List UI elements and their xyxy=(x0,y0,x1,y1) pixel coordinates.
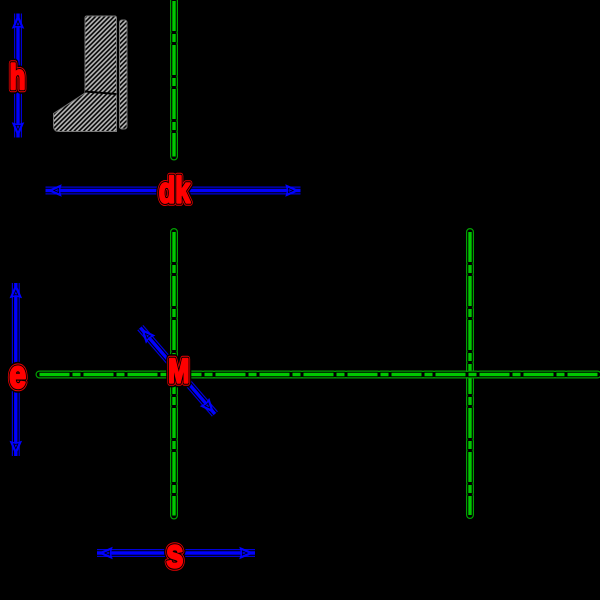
arrowhead dk left xyxy=(49,186,61,196)
dimension line dk shaft xyxy=(46,187,301,195)
center line vertical left cross (top view axis) xyxy=(170,232,178,516)
arrowhead s right xyxy=(241,548,253,558)
svg-text:s: s xyxy=(166,531,183,576)
arrowhead e top xyxy=(11,286,21,298)
svg-text:e: e xyxy=(9,353,26,396)
arrowhead h bottom xyxy=(13,124,23,136)
arrowhead diagonal lower-right xyxy=(202,400,213,412)
arrowhead dk right xyxy=(287,186,299,196)
dimension line e shaft xyxy=(12,283,20,456)
label h (head height) xyxy=(9,57,25,97)
label dk (head diameter) xyxy=(159,170,191,211)
hatched cross-section: screw head half section xyxy=(54,16,117,132)
label M (thread size) xyxy=(168,353,189,390)
arrowhead h top xyxy=(13,16,23,28)
label e (width across corners) xyxy=(9,353,26,396)
dimension line s shaft xyxy=(97,549,255,557)
diagonal dimension line shaft (thread symbol) xyxy=(140,328,215,414)
center line vertical top (section view axis) xyxy=(170,1,178,157)
dimension line h shaft xyxy=(14,14,22,138)
svg-text:M: M xyxy=(168,353,189,390)
arrowhead s left xyxy=(100,548,112,558)
svg-text:dk: dk xyxy=(159,170,191,211)
arrowhead e bottom xyxy=(11,442,21,454)
hatched strip (far wall) xyxy=(120,20,128,129)
arrowhead diagonal upper-left xyxy=(142,330,153,342)
label s (width across flats) xyxy=(166,531,183,576)
center line vertical right cross (side view axis) xyxy=(466,232,474,515)
svg-text:h: h xyxy=(9,57,25,97)
center line horizontal xyxy=(40,371,600,379)
section split line xyxy=(85,92,117,95)
